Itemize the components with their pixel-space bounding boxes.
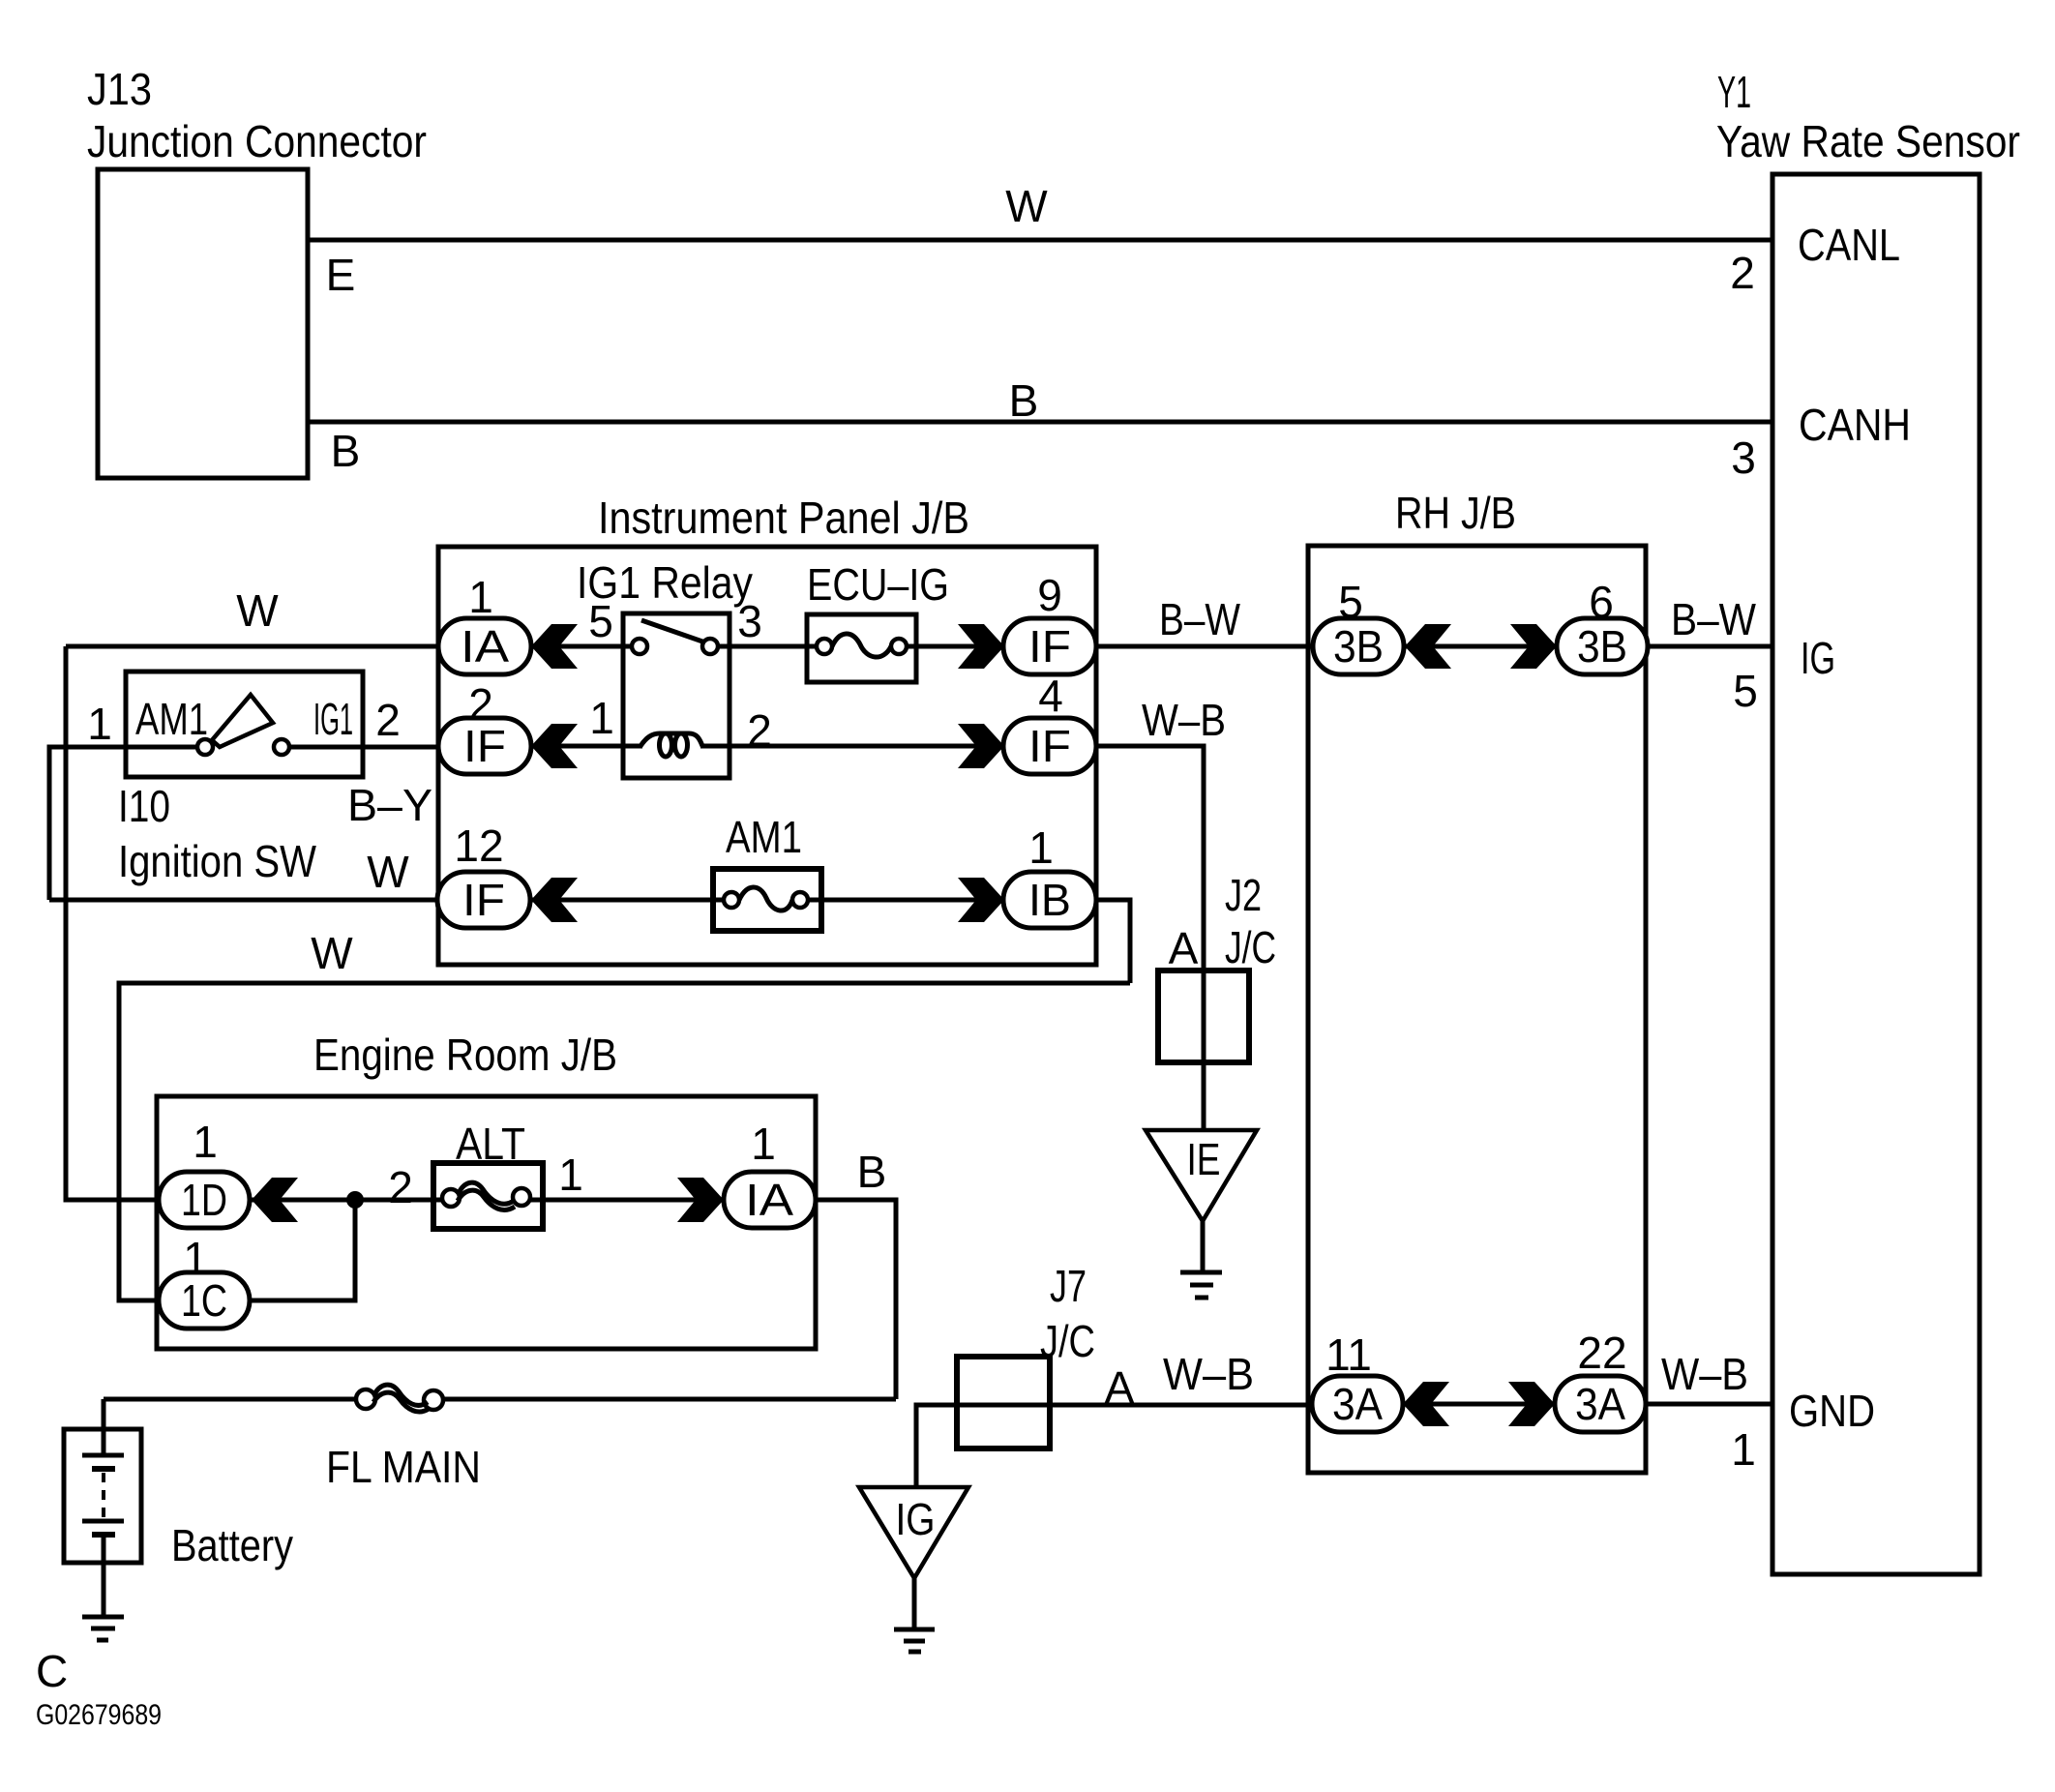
svg-text:1: 1 [193,1117,218,1167]
svg-text:B–Y: B–Y [347,780,432,830]
wire vertical left to engine 1D [66,646,159,1200]
battery feed wire with FL MAIN [104,1397,354,1402]
wire ignition right B-Y [363,745,438,750]
svg-text:W: W [1005,181,1048,231]
junction connector J13 [98,169,308,478]
svg-text:5: 5 [1733,666,1758,716]
svg-text:B: B [857,1147,887,1197]
svg-text:Battery: Battery [171,1520,293,1570]
wire engine row [250,1198,443,1203]
ignition switch contacts [197,739,213,755]
svg-text:CANH: CANH [1799,400,1911,450]
svg-text:Instrument Panel J/B: Instrument Panel J/B [598,493,969,543]
svg-text:IA: IA [745,1175,793,1225]
connector IF pin2 [438,718,531,774]
svg-text:3A: 3A [1332,1379,1383,1429]
wire row1 left W [66,644,438,649]
chevron right row2 [958,724,1004,768]
svg-text:22: 22 [1577,1328,1626,1378]
svg-text:B–W: B–W [1671,594,1757,644]
svg-text:1: 1 [751,1119,776,1169]
wire row2 inner segments [531,744,642,749]
wire B-W row1 to RH J/B [1096,644,1314,649]
svg-text:Engine Room J/B: Engine Room J/B [313,1030,617,1080]
svg-text:Y1: Y1 [1717,67,1751,117]
chevron left 3A [1403,1382,1449,1426]
svg-text:RH J/B: RH J/B [1395,488,1516,538]
ground triangle IG [859,1487,968,1578]
relay switch lever [641,620,705,642]
svg-text:CANL: CANL [1798,220,1900,270]
svg-text:G02679689: G02679689 [36,1699,162,1731]
relay switch contacts [632,639,647,654]
wire 3B row inner [1403,644,1557,649]
svg-text:Ignition SW: Ignition SW [118,836,317,886]
svg-text:11: 11 [1325,1329,1372,1380]
wire 1C to junction dot [250,1200,355,1300]
svg-text:1: 1 [558,1150,583,1200]
wire row3 inner segments [531,898,724,903]
svg-text:3: 3 [737,596,762,646]
wire from IB down to long W wire [1096,900,1130,983]
svg-text:IE: IE [1187,1134,1221,1184]
wire row3 W to IF12 [49,898,438,903]
svg-text:ECU–IG: ECU–IG [807,559,949,610]
svg-text:1: 1 [589,693,614,743]
svg-text:I10: I10 [118,781,170,831]
svg-text:3B: 3B [1333,621,1384,672]
ground IE [1180,1270,1222,1275]
connector 1C pin1 [159,1272,250,1329]
svg-text:W: W [367,847,409,897]
svg-text:3A: 3A [1575,1379,1625,1429]
connector IA engine pin1 [724,1172,816,1228]
ground battery [82,1615,124,1620]
fusible link FL MAIN [356,1389,375,1409]
ground triangle IE [1146,1130,1257,1221]
svg-text:W: W [236,585,279,636]
svg-text:A: A [1105,1362,1135,1413]
connector 3A pin11 [1312,1376,1403,1432]
chevron left row2 [531,724,578,768]
svg-text:A: A [1169,923,1199,973]
chevron right 3B [1510,624,1557,669]
svg-text:J/C: J/C [1225,922,1276,972]
svg-text:IB: IB [1028,875,1071,925]
connector IB pin1 [1003,872,1096,928]
svg-text:Yaw Rate Sensor: Yaw Rate Sensor [1716,116,2020,166]
svg-text:IF: IF [462,875,505,925]
wire B-W to Y1 IG [1648,644,1772,649]
yaw rate sensor Y1 [1772,174,1980,1574]
connector 1D pin1 [159,1172,250,1228]
svg-text:AM1: AM1 [135,694,208,744]
junction dot [346,1191,364,1209]
svg-text:IG: IG [896,1494,936,1544]
relay coil [640,733,702,746]
svg-text:IF: IF [1028,721,1071,771]
chevron left 3B [1405,624,1451,669]
chevron right row3 [958,878,1004,922]
long wire W under J/B [119,983,1130,1300]
svg-text:5: 5 [1338,577,1363,627]
svg-text:E: E [326,250,356,300]
svg-text:4: 4 [1038,671,1063,721]
connector 3B pin6 [1557,618,1648,674]
wire 3A row inner [1401,1402,1555,1407]
chevron left engine [252,1178,298,1222]
ground IG [894,1628,935,1632]
svg-text:J2: J2 [1225,870,1262,920]
chevron right row1 [958,624,1004,669]
chevron left row3 [531,878,578,922]
chevron right 3A [1508,1382,1555,1426]
svg-text:IG: IG [1801,633,1835,683]
svg-text:2: 2 [747,705,772,756]
svg-text:C: C [36,1646,68,1696]
svg-text:J13: J13 [87,64,152,114]
svg-text:W: W [311,928,353,978]
connector IF pin12 [437,872,530,928]
svg-text:1: 1 [87,699,112,749]
wire W CANL [308,238,1772,243]
svg-text:B: B [331,426,361,476]
svg-text:AM1: AM1 [726,812,802,862]
svg-text:2: 2 [388,1162,413,1212]
chevron left row1 [531,624,578,669]
connector IF pin4 [1003,718,1096,774]
svg-text:2: 2 [468,679,493,730]
wire ignition inner [126,745,197,750]
svg-text:W–B: W–B [1163,1349,1254,1399]
svg-text:3B: 3B [1577,621,1627,672]
wire ignition left + vertical [49,747,126,900]
svg-text:1: 1 [1731,1424,1756,1475]
svg-text:W–B: W–B [1661,1349,1748,1399]
wire row1 inner segments [531,644,632,649]
svg-text:2: 2 [1730,248,1755,298]
svg-text:1: 1 [183,1233,208,1283]
svg-text:B–W: B–W [1159,594,1240,644]
svg-text:1: 1 [468,572,493,622]
wire from IA eng to battery feed vertical [816,1200,896,1399]
connector IF pin9 [1003,618,1096,674]
svg-text:Junction Connector: Junction Connector [87,116,427,166]
wire B CANH [308,420,1772,425]
svg-text:B: B [1009,375,1039,426]
ignition switch lever [212,695,273,747]
ignition switch I10 box [126,672,363,777]
svg-text:IF: IF [1028,621,1071,672]
svg-text:FL MAIN: FL MAIN [326,1442,481,1492]
connector IA pin1 [438,618,531,674]
ground wire W-B row [916,1405,1312,1487]
svg-text:3: 3 [1731,433,1756,483]
svg-text:1: 1 [1028,822,1054,873]
svg-text:9: 9 [1037,570,1062,620]
svg-text:IA: IA [461,621,509,672]
svg-text:J7: J7 [1050,1261,1087,1311]
wire W-B to Y1 GND [1646,1402,1772,1407]
wire W-B row2 down to J2 [1096,746,1204,1130]
svg-text:IG1: IG1 [313,694,353,744]
svg-text:12: 12 [454,821,503,871]
svg-text:IG1 Relay: IG1 Relay [577,557,753,608]
svg-text:2: 2 [375,695,401,745]
svg-text:W–B: W–B [1142,695,1226,745]
svg-text:6: 6 [1589,577,1614,627]
svg-text:GND: GND [1789,1386,1875,1436]
chevron right engine [677,1178,724,1222]
connector 3B pin5 [1313,618,1404,674]
connector 3A pin22 [1555,1376,1646,1432]
svg-text:1D: 1D [181,1175,227,1225]
